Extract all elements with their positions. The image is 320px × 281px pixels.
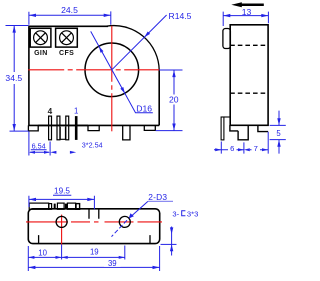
front feet	[28, 125, 155, 130]
svg-text:39: 39	[108, 259, 117, 268]
dimensions 10 and 19	[28, 245, 125, 272]
bottom view pin rail	[29, 203, 49, 209]
radius leader R14.5	[112, 11, 192, 70]
svg-text:1: 1	[74, 107, 78, 116]
side view direction arrow	[231, 2, 263, 7]
side view mounting ear	[223, 29, 231, 49]
side view bottom profile	[230, 125, 268, 140]
hole 1	[56, 216, 67, 227]
bottom view slots (top)	[89, 210, 99, 219]
svg-text:D16: D16	[136, 104, 152, 114]
dimension 5	[270, 111, 286, 154]
dimension 13	[223, 7, 268, 26]
dimension 34.5	[5, 26, 28, 132]
bottom view centerline	[26, 221, 162, 223]
pin web between pins 3 and 2	[60, 127, 65, 139]
svg-text:2-D3: 2-D3	[148, 192, 167, 202]
svg-text:10: 10	[38, 248, 47, 257]
dimensions 6 and 7	[214, 132, 268, 154]
svg-text:3*2.54: 3*2.54	[82, 140, 103, 149]
svg-text:R14.5: R14.5	[169, 11, 192, 21]
horizontal centerline	[28, 69, 159, 71]
svg-text:GIN: GIN	[34, 50, 48, 57]
bottom view body	[28, 209, 159, 244]
hole 2	[119, 216, 130, 227]
terminal square GIN	[30, 28, 51, 47]
bottom edge over pins	[38, 124, 88, 126]
hole 1 centerline	[61, 215, 63, 245]
pin 1	[75, 116, 78, 140]
dimension 39	[28, 246, 159, 271]
svg-text:6: 6	[230, 144, 234, 153]
dimension 24.5	[29, 5, 111, 25]
terminal square CFS	[56, 28, 78, 47]
center hole D16	[85, 43, 139, 97]
leader 2-D3	[112, 192, 174, 237]
dimension 19.5	[29, 187, 95, 210]
side lead hook	[221, 117, 230, 140]
svg-text:5: 5	[276, 129, 281, 138]
svg-text:13: 13	[242, 7, 252, 17]
vertical centerline	[111, 26, 113, 132]
front view body outline	[28, 26, 159, 126]
svg-text:34.5: 34.5	[5, 73, 22, 83]
svg-text:19.5: 19.5	[54, 187, 70, 196]
center standoff tab	[123, 125, 130, 139]
svg-text:19: 19	[90, 248, 99, 257]
diameter leader D16	[91, 31, 153, 113]
label 3-slots 3x3	[172, 209, 198, 218]
dimension 20	[156, 70, 183, 131]
svg-text:20: 20	[169, 95, 179, 105]
svg-text:7: 7	[254, 144, 258, 153]
svg-text:3*3: 3*3	[187, 209, 198, 218]
bottom view pin blocks	[49, 203, 80, 209]
svg-text:24.5: 24.5	[61, 5, 78, 15]
dimension 6.54 and 3*2.54	[29, 132, 103, 156]
svg-text:4: 4	[48, 107, 53, 116]
side view body	[230, 25, 268, 126]
dimension 3 (slot depth)	[161, 227, 177, 256]
side view parting lines (dashed)	[230, 45, 268, 93]
svg-text:3-: 3-	[172, 209, 179, 218]
bottom view slots (bottom)	[39, 235, 150, 243]
pin 4	[49, 116, 52, 140]
svg-text:CFS: CFS	[59, 50, 74, 57]
pin 2	[66, 116, 69, 140]
pin 3	[57, 116, 60, 140]
